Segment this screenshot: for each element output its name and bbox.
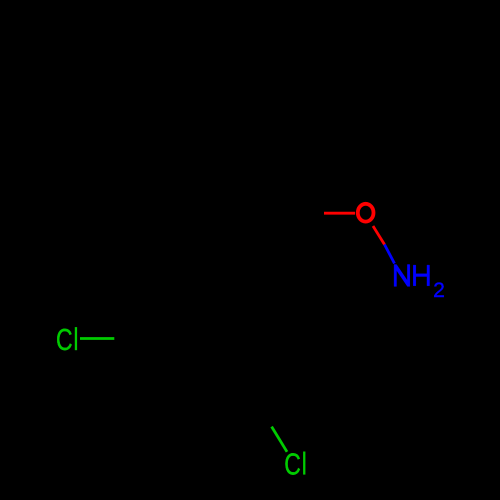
svg-text:2: 2 — [433, 279, 445, 302]
svg-text:C: C — [56, 322, 73, 357]
svg-text:C: C — [284, 446, 301, 481]
